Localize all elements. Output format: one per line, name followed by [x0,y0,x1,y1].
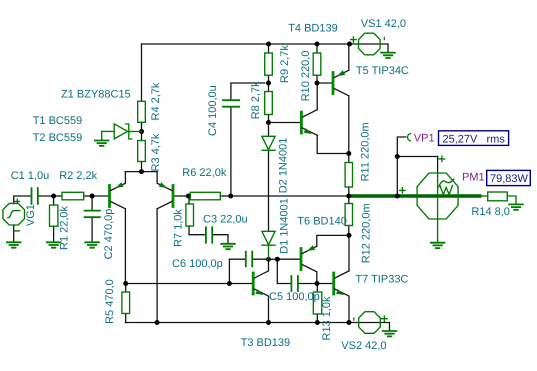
diode D1 cathode bar [262,244,275,246]
wire T5 base [317,82,332,84]
wire R7 bottom to C3 [189,226,206,235]
resistor R13 1,0k [313,292,322,314]
wire T4 base [269,122,300,124]
wire VS1 left lead [350,44,389,52]
capacitor C1 1,0u [32,188,38,204]
svg-text:C6 100,0p: C6 100,0p [172,258,223,270]
transistor T7 arrow [336,289,344,295]
svg-text:R3 4,7k: R3 4,7k [150,133,162,171]
transistor T3 emitter [254,289,268,323]
svg-text:T2 BC559: T2 BC559 [33,132,83,144]
wire R7 top lead [188,196,190,204]
node T7 base R13 [315,281,320,286]
wire bottom rail [125,323,389,331]
wire VP1 node to meter plus [397,156,437,158]
wire R3 bottom to tail node [141,162,143,172]
node R1 input [51,194,56,199]
svg-text:R4 2,7k: R4 2,7k [150,82,162,120]
transistor T7 emitter [335,289,349,323]
svg-text:R1 22,0k: R1 22,0k [59,205,71,250]
meter PM1 plus top [439,156,444,161]
wire R2 left lead [54,195,62,197]
transistor T1 arrow [116,182,124,188]
wire T7 base [317,283,332,285]
resistor R10 220,0 [313,53,321,75]
node R10 T4 collector T5 base [315,81,320,86]
transistor T5 arrow [337,70,345,76]
node T6 base C5 [275,257,280,262]
wire T1 collector run [124,209,126,284]
node R10 top rail [315,42,320,47]
wire mid rail to output node [231,195,349,197]
transistor T2 emitter [157,172,172,191]
svg-text:C1 1,0u: C1 1,0u [11,170,50,182]
wire VG1 top lead to C1 [14,196,32,204]
wire R4 top lead to rail [141,44,143,101]
meter PM1 wave [439,179,454,187]
node C4 bottom junction [228,194,233,199]
svg-text:R7 1,0k: R7 1,0k [173,209,185,247]
node diff tail [139,169,144,174]
transistor T5 emitter [334,70,349,77]
svg-text:D1 1N4001: D1 1N4001 [278,198,290,254]
wire R12 top lead [348,196,350,204]
wire thick to R14 [481,195,488,197]
svg-text:PM1: PM1 [462,172,485,184]
ground C3 [221,244,235,249]
source VS1 plus [351,37,356,42]
transistor T6 bar [300,249,303,270]
svg-text:T3 BD139: T3 BD139 [241,337,291,349]
zener Z1 bar [126,124,132,139]
wire T2 collector run [156,209,158,323]
svg-text:D2 1N4001: D2 1N4001 [278,138,290,194]
wire PM1 top lead [437,157,439,174]
wire R8 bottom lead [268,115,270,123]
wire D2 anode lead [268,123,270,137]
transistor T6 collector [302,264,317,283]
transistor T3 arrow [255,289,263,295]
transistor T1 emitter [111,172,126,191]
wire C2 top lead [91,196,93,211]
wire C2 bottom lead [91,217,93,242]
source VS1 octagon [359,33,381,55]
svg-text:T1 BC559: T1 BC559 [33,115,83,127]
resistor R14 8,0 [488,192,508,201]
meter PM1 octagon [417,173,458,219]
svg-text:C4 100,0u: C4 100,0u [207,85,219,136]
svg-text:R11 220,0m: R11 220,0m [359,122,371,181]
ground R14 [509,204,523,209]
svg-text:T7 TIP33C: T7 TIP33C [355,273,408,285]
svg-text:VG1: VG1 [25,204,37,226]
wire T2 base [174,195,188,197]
ground VG1 [7,242,21,247]
transistor T7 bar [332,273,335,294]
wire R5 top lead [125,284,127,293]
wire R1 bottom lead [53,226,55,242]
wire T7 collector run [348,235,350,271]
resistor R1 22,0k [50,205,58,226]
transistor T4 arrow [304,128,312,134]
wire R1 top lead [53,196,55,205]
svg-text:Z1 BZY88C15: Z1 BZY88C15 [61,88,131,100]
wire R13 bottom lead [316,314,318,323]
source VG1 octagon [3,203,25,225]
capacitor C5 100,0p [291,276,298,291]
svg-text:VS2 42,0: VS2 42,0 [341,340,386,352]
wire C4 bottom lead [230,107,232,196]
node T1 collector R5 [123,281,128,286]
node R13 bottom rail [315,320,320,325]
svg-text:rms: rms [487,133,506,145]
node D1 T3 collector C6 [266,257,271,262]
resistor R6 22,0k [190,192,220,200]
readout box VP1 [439,131,509,146]
wire C4 top lead [231,83,265,100]
wire output thick [349,194,482,197]
capacitor C6 100,0p [246,252,252,267]
zener Z1 anode wire [102,131,115,140]
transistor T1 collector [111,201,126,208]
ground PM1 [431,243,445,248]
svg-text:R2 2,2k: R2 2,2k [59,170,97,182]
ground C2 [85,242,99,247]
probe VP1 tip [408,134,411,141]
svg-text:T5 TIP34C: T5 TIP34C [356,65,409,77]
source VS1 minus tick [383,37,385,40]
diode D2 cathode bar [262,149,275,151]
wire R11 bottom lead [348,187,350,196]
svg-text:VS1 42,0: VS1 42,0 [361,18,406,30]
svg-text:T6 BD140: T6 BD140 [297,215,347,227]
ground VS1 [381,53,395,58]
svg-text:25,27V: 25,27V [443,133,479,145]
svg-text:R14 8,0: R14 8,0 [471,206,510,218]
svg-text:R8 2,7k: R8 2,7k [250,81,262,119]
node R9 top rail [266,42,271,47]
wire T5 collector to R11 node [348,96,350,154]
transistor T3 bar [252,273,255,294]
wire R4 bottom lead [141,122,143,131]
transistor T1 bar [108,186,111,207]
wire C6 left lead [229,259,245,283]
source VG1 minus [15,230,20,232]
zener Z1 cathode wire [129,131,142,133]
wire R14 right lead [507,196,516,204]
transistor T4 bar [300,112,303,133]
node T7 emitter rail [347,320,352,325]
meter PM1 vertical lead [437,173,439,242]
wire diff pair tail [125,171,157,173]
wire R5 bottom lead [125,314,127,323]
wire T1 base [92,195,108,197]
node R11 top [346,151,351,156]
node zener junction [139,129,144,134]
source VG1 sine [8,211,20,218]
diode D1 1N4001 [262,231,275,244]
node R12 bottom [347,233,352,238]
wire R10 bottom lead [316,75,318,83]
resistor R5 470,0 [122,292,130,314]
svg-text:R5 470,0: R5 470,0 [104,279,116,324]
readout box PM1 [487,170,531,185]
node VS1 rail [347,42,352,47]
wire T5 emitter to rail [348,44,350,70]
resistor R4 2,7k [138,101,146,122]
resistor R3 4,7k [138,141,146,162]
wire bias node link [269,258,278,260]
transistor T5 collector [334,88,349,95]
transistor T6 emitter [302,246,317,253]
node T3 emitter rail [266,320,271,325]
resistor R2 2,2k [62,192,84,200]
transistor T2 arrow [159,182,167,188]
wire T4 emitter to R11 [317,135,349,153]
capacitor C4 100,0u [223,100,239,107]
wire R9 top lead [268,44,270,53]
node VP1 output tap [395,194,400,199]
wire R2 right lead to node [84,195,92,197]
wire R11 top lead [348,154,350,163]
wire R6 left lead [188,195,190,197]
wire R9 to R8 [268,75,270,91]
node output [346,194,351,199]
svg-text:R13 1,0k: R13 1,0k [321,296,333,341]
node T2 collector rail [155,320,160,325]
wire R10 top lead [316,44,318,53]
svg-text:R6 22,0k: R6 22,0k [182,167,227,179]
svg-text:C2 470,0p: C2 470,0p [103,209,115,260]
node T1 base junction [90,194,95,199]
svg-text:VP1: VP1 [414,133,435,145]
resistor R12 220,0m [345,204,352,226]
wire C5 right lead [298,283,317,285]
transistor T4 collector [302,110,317,117]
wire top supply rail [142,43,350,45]
source VS2 octagon [359,312,381,334]
transistor T5 bar [332,73,335,94]
ground Z1 [95,141,109,146]
transistor T2 bar [172,186,175,207]
node T2 base junction [186,194,191,199]
source VS2 minus tick [353,317,355,320]
resistor R11 220,0m [345,163,352,188]
capacitor C2 470,0p [85,211,100,218]
svg-text:C5 100,0p: C5 100,0p [269,291,320,303]
svg-text:R12 220,0m: R12 220,0m [361,203,373,263]
wire R3 top lead [141,132,143,141]
svg-text:79,83W: 79,83W [490,173,529,185]
meter PM1 plus left [400,188,405,193]
wire R13 top lead [316,284,318,293]
transistor T2 collector [157,201,172,208]
wire T6 base [277,258,300,260]
transistor T7 collector [335,271,349,278]
resistor R8 2,7k [265,92,273,115]
wire C5 left lead [277,259,291,283]
source VG1 plus [15,199,19,203]
wire C1 to R1 node [38,195,54,197]
wire T6 emitter to node [317,235,349,246]
node R9 R8 C4 [266,81,271,86]
svg-text:T4 BD139: T4 BD139 [288,23,338,35]
source VS2 plus [382,316,387,321]
svg-text:C3 22,0u: C3 22,0u [203,214,248,226]
transistor T4 emitter [302,128,317,135]
wire C3 right to ground [212,235,228,244]
wire C6 right lead [252,258,268,260]
resistor R9 2,7k [265,53,273,75]
ground R1 [47,242,61,247]
resistor R7 1,0k [186,204,194,226]
meter PM1 W symbol [440,186,452,195]
node C6 T3 base [227,281,232,286]
wire R12 bottom lead [348,226,350,236]
wire R6 right lead [220,195,230,197]
capacitor C3 22,0u [206,227,212,242]
wire D2 to D1 [268,150,270,231]
zener Z1 triangle [114,124,128,139]
transistor T3 collector [254,259,268,278]
diode D1 cathode lead [268,245,270,259]
ground VS2 [383,331,397,336]
svg-text:R9 2,7k: R9 2,7k [279,45,291,83]
node R8 D2 T4 base [266,120,271,125]
wire VP1 probe stem [397,137,406,196]
svg-text:R10 220,0: R10 220,0 [300,51,312,102]
wire T3 base run [126,283,252,285]
wire VG1 bottom lead [13,225,15,242]
wire T4 collector to node [316,83,318,110]
diode D2 1N4001 [262,136,275,149]
transistor T6 arrow [307,245,315,251]
node VP1 branch [395,154,400,159]
